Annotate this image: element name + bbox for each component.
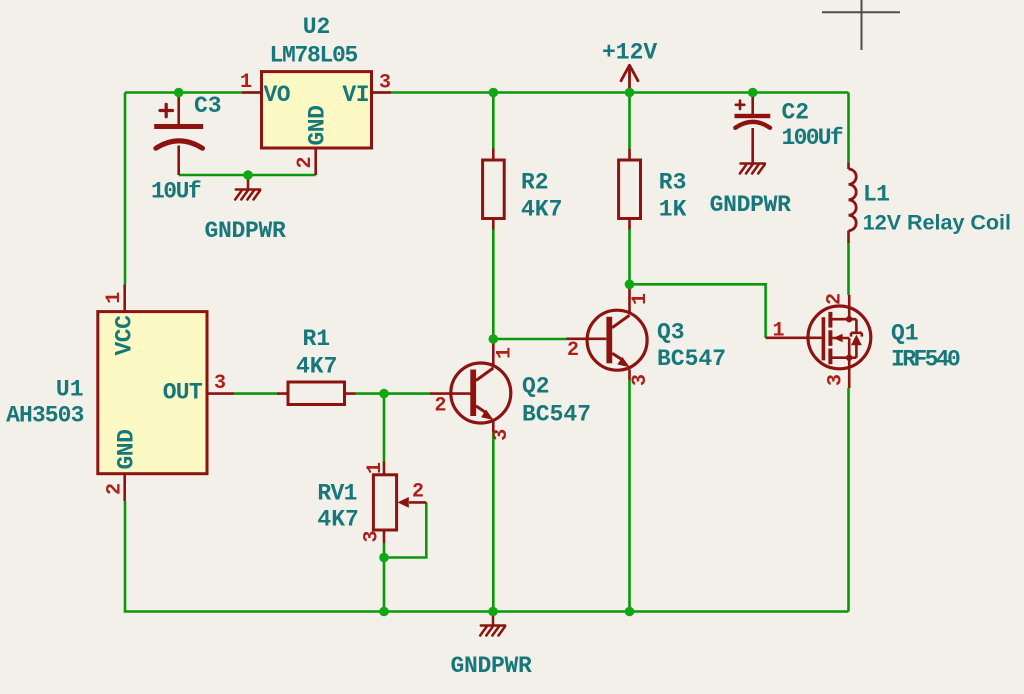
svg-text:2: 2 <box>412 481 424 504</box>
svg-text:1: 1 <box>629 293 652 305</box>
svg-text:1: 1 <box>772 320 784 343</box>
svg-text:2: 2 <box>434 395 446 418</box>
svg-text:BC547: BC547 <box>657 346 726 372</box>
svg-text:3: 3 <box>825 374 848 386</box>
svg-text:VCC: VCC <box>112 315 138 356</box>
svg-text:GND: GND <box>114 430 140 470</box>
svg-text:Q2: Q2 <box>522 374 550 400</box>
svg-text:3: 3 <box>379 72 391 95</box>
svg-text:4K7: 4K7 <box>317 507 358 533</box>
svg-text:R2: R2 <box>521 170 549 196</box>
svg-text:OUT: OUT <box>163 380 203 406</box>
svg-text:2: 2 <box>824 293 847 305</box>
svg-text:3: 3 <box>214 372 226 395</box>
svg-text:2: 2 <box>567 339 579 362</box>
svg-text:IRF540: IRF540 <box>891 347 960 373</box>
svg-text:2: 2 <box>104 483 127 495</box>
svg-text:R1: R1 <box>303 326 331 352</box>
svg-text:RV1: RV1 <box>317 481 356 507</box>
svg-text:BC547: BC547 <box>522 402 591 428</box>
svg-text:LM78L05: LM78L05 <box>270 43 358 69</box>
svg-text:U1: U1 <box>56 377 84 403</box>
svg-text:1: 1 <box>103 292 126 304</box>
svg-text:C3: C3 <box>194 93 222 119</box>
svg-text:Q3: Q3 <box>657 320 685 346</box>
svg-text:3: 3 <box>361 530 384 542</box>
svg-text:GNDPWR: GNDPWR <box>205 218 287 244</box>
svg-text:U2: U2 <box>303 14 331 40</box>
svg-text:L1: L1 <box>863 182 889 208</box>
svg-text:1K: 1K <box>659 197 687 223</box>
svg-text:+12V: +12V <box>602 40 657 66</box>
svg-text:VO: VO <box>264 82 291 108</box>
svg-text:4K7: 4K7 <box>521 197 562 223</box>
svg-text:1: 1 <box>494 347 517 359</box>
svg-text:GNDPWR: GNDPWR <box>451 653 533 679</box>
svg-text:10Uf: 10Uf <box>151 179 201 205</box>
svg-text:GND: GND <box>305 106 331 146</box>
svg-text:Q1: Q1 <box>891 321 919 347</box>
svg-text:1: 1 <box>240 71 252 94</box>
svg-text:3: 3 <box>629 374 652 386</box>
svg-text:AH3503: AH3503 <box>6 403 84 429</box>
svg-text:100Uf: 100Uf <box>782 125 843 151</box>
svg-text:3: 3 <box>490 429 513 441</box>
svg-text:C2: C2 <box>782 100 810 126</box>
svg-text:2: 2 <box>294 156 317 168</box>
svg-text:VI: VI <box>342 82 369 108</box>
svg-text:4K7: 4K7 <box>296 354 337 380</box>
svg-text:R3: R3 <box>659 170 687 196</box>
svg-text:GNDPWR: GNDPWR <box>710 192 792 218</box>
svg-text:1: 1 <box>364 462 387 474</box>
svg-text:12V Relay Coil: 12V Relay Coil <box>863 211 1011 235</box>
